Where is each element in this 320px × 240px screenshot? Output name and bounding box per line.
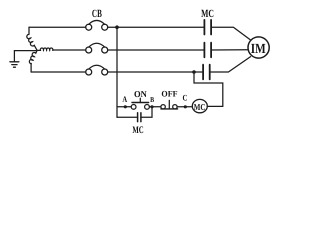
node C [184, 105, 187, 108]
contactor MC main contact 3 [203, 65, 210, 80]
wire: holding-contact branch to node B [141, 107, 152, 118]
wire: control circuit drop from phase 1 [116, 27, 118, 117]
pushbutton OFF (normally closed) [161, 100, 178, 109]
wire phase 3 (source to CB) [31, 71, 86, 73]
wire phase 1 (CB to MC contact) [108, 26, 205, 28]
neutral wire to ground [14, 51, 37, 62]
transformer winding U (upper diagonal coil) [27, 27, 37, 50]
svg-text:MC: MC [201, 8, 214, 20]
contactor coil MC [192, 99, 207, 112]
node: junction on phase 3 for coil return [192, 70, 196, 74]
wire: coil return path [194, 72, 223, 106]
wire phase 3 (MC contact to motor) [210, 57, 251, 72]
circuit breaker CB pole 1 [86, 20, 108, 30]
wire: control line (OFF button to MC coil) [177, 106, 192, 108]
ground [10, 62, 19, 67]
wire phase 1 (MC contact to motor) [211, 27, 250, 40]
svg-text:CB: CB [92, 8, 102, 20]
wire: holding-contact branch (lower) [117, 116, 138, 118]
svg-text:IM: IM [251, 42, 266, 57]
svg-text:A: A [122, 94, 127, 104]
contactor MC main contact 1 [204, 20, 211, 35]
contactor MC main contact 2 [204, 43, 211, 58]
auxiliary contact MC (holding contact) [138, 113, 141, 122]
svg-text:OFF: OFF [161, 89, 177, 99]
wire phase 3 (CB to MC contact) [108, 71, 204, 73]
transformer winding V (horizontal coil to middle phase) [37, 48, 53, 50]
circuit breaker CB pole 3 [86, 65, 108, 75]
wire: control line (node A to ON button) [117, 106, 131, 108]
node B [150, 105, 153, 108]
wire: control line (ON button to OFF button) [149, 106, 161, 108]
wire phase 2 (MC contact to motor) [211, 49, 248, 51]
circuit breaker CB pole 2 [86, 43, 108, 53]
node A [124, 105, 127, 108]
svg-text:MC: MC [132, 125, 143, 136]
wire phase 2 (source to CB) [53, 49, 86, 51]
transformer winding W (lower diagonal coil) [29, 50, 37, 72]
pushbutton ON (normally open) [131, 98, 149, 109]
svg-text:C: C [182, 92, 187, 102]
svg-text:MC: MC [194, 102, 206, 112]
wire phase 1 (top line, source to CB) [29, 26, 86, 28]
svg-text:B: B [150, 95, 154, 104]
motor IM circle [248, 37, 269, 58]
wire phase 2 (CB to MC contact) [108, 49, 205, 51]
node: tap junction on phase 1 [115, 25, 119, 29]
svg-text:ON: ON [134, 89, 147, 99]
